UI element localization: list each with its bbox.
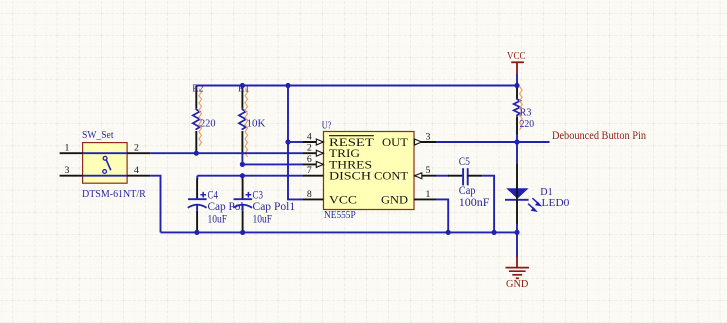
resistor R1 bottom pin — [241, 131, 243, 154]
svg-text:VCC: VCC — [329, 194, 357, 206]
LED emission arrow 2 — [528, 204, 536, 212]
RESET overline — [329, 135, 374, 137]
svg-text:Cap Pol: Cap Pol — [208, 201, 244, 213]
capacitor C3 plus sign — [246, 192, 252, 198]
capacitor C4 plus sign — [200, 192, 206, 198]
capacitor C4 bottom pin — [196, 211, 198, 233]
svg-text:SW_Set: SW_Set — [82, 130, 114, 141]
svg-text:4: 4 — [307, 131, 312, 142]
pin 2 stub (TRIG) — [303, 152, 324, 154]
svg-text:5: 5 — [426, 165, 431, 176]
pin 2 stub (switch) — [127, 152, 150, 154]
diode D1 cathode bar — [505, 199, 529, 201]
wire: DISCH row from C4 corner to IC — [197, 175, 303, 177]
wire: RESET from junction to stub — [288, 141, 303, 143]
diode D1 bottom pin — [516, 200, 518, 224]
capacitor C4 bottom stub — [196, 205, 198, 211]
wire: THRES row — [242, 163, 303, 165]
svg-text:CONT: CONT — [374, 171, 408, 183]
svg-text:VCC: VCC — [507, 51, 526, 62]
resistor R3 zigzag — [514, 99, 521, 116]
ground symbol stub — [516, 257, 518, 268]
svg-text:DTSM-61NT/R: DTSM-61NT/R — [82, 189, 146, 200]
wire: OUT to net label — [436, 141, 550, 143]
ground bar 1 — [506, 267, 530, 269]
svg-text:OUT: OUT — [382, 137, 408, 149]
pin 6 stub (THRES) — [303, 163, 324, 165]
svg-text:100nF: 100nF — [459, 197, 490, 209]
pin 3 stub (switch) — [60, 175, 83, 177]
capacitor C3 bottom stub — [242, 205, 244, 211]
ground bar 3 — [512, 274, 522, 276]
junction x288/top rail — [285, 83, 290, 88]
pin 4 stub (switch) — [127, 175, 150, 177]
resistor R2 zigzag — [193, 109, 200, 130]
ground bar 2 — [509, 270, 526, 272]
resistor R3 bottom pin — [516, 116, 518, 135]
wire: OUT junction down to LED — [516, 142, 518, 164]
wire: C4 corner down — [196, 176, 198, 180]
svg-text:Cap Pol1: Cap Pol1 — [253, 201, 296, 213]
junction rail/IC-GND — [446, 230, 451, 235]
switch contact circle upper — [103, 156, 107, 160]
wire: C3 column from DISCH junction down — [241, 176, 243, 180]
svg-text:3: 3 — [65, 165, 70, 176]
pin 1 stub (switch) — [60, 152, 83, 154]
pin 5 input arrow — [415, 173, 422, 179]
resistor R3 top pin — [516, 86, 518, 99]
svg-text:NE555P: NE555P — [324, 210, 356, 221]
svg-text:U?: U? — [322, 121, 332, 132]
junction DISCH/C3 — [240, 173, 245, 178]
wire: vertical R2 column top pin (black) — [195, 86, 197, 109]
capacitor C3 top pin — [242, 179, 244, 200]
diode D1 LED triangle — [506, 188, 528, 199]
junction rail/C4 — [194, 230, 199, 235]
svg-text:D1: D1 — [540, 187, 552, 198]
capacitor C3 curved plate — [233, 205, 252, 208]
VCC stub — [516, 62, 518, 74]
svg-text:10uF: 10uF — [253, 213, 273, 225]
capacitor C5 right pin — [468, 175, 483, 177]
diode D1 top pin — [516, 164, 518, 199]
pin 4 input arrow — [316, 139, 323, 145]
wire: switch pin4 to bottom rail corner — [150, 176, 160, 233]
svg-text:GND: GND — [506, 279, 529, 290]
capacitor C3 bottom pin — [242, 211, 244, 233]
switch actuator bar — [106, 160, 110, 170]
switch internal line row1 — [83, 152, 128, 154]
svg-text:220: 220 — [520, 119, 535, 130]
svg-text:R3: R3 — [520, 108, 532, 119]
junction VCC/top rail — [514, 83, 519, 88]
svg-text:GND: GND — [381, 194, 408, 206]
svg-text:C4: C4 — [208, 189, 219, 201]
junction rail/C5 — [492, 230, 497, 235]
pin 8 stub (VCC) — [303, 198, 324, 200]
capacitor C3 top plate — [234, 198, 253, 200]
svg-text:TRIG: TRIG — [329, 148, 360, 160]
pin 2 input arrow — [316, 150, 323, 156]
wire: LED to rail — [516, 224, 518, 232]
svg-text:8: 8 — [307, 189, 312, 200]
resistor R1 top pin — [241, 86, 243, 109]
svg-text:220: 220 — [200, 119, 216, 130]
LED emission arrow 1 — [532, 198, 540, 206]
pin 6 input arrow — [316, 161, 323, 167]
svg-text:10K: 10K — [247, 119, 267, 130]
svg-text:1: 1 — [65, 143, 70, 154]
resistor R2 bottom pin — [195, 131, 197, 153]
svg-text:C3: C3 — [253, 189, 264, 201]
svg-text:7: 7 — [307, 165, 312, 176]
junction rail/C3 — [240, 230, 245, 235]
capacitor C4 top plate — [188, 198, 207, 200]
svg-text:LED0: LED0 — [542, 198, 570, 209]
pin 3 stub (OUT) — [414, 141, 436, 143]
wire: CONT to C5 — [436, 175, 449, 177]
junction rail/GND-drop — [514, 230, 519, 235]
svg-text:3: 3 — [426, 131, 431, 142]
VCC bar — [511, 61, 524, 63]
svg-text:Cap: Cap — [459, 185, 476, 197]
svg-text:6: 6 — [307, 154, 312, 165]
junction R2/TRIG — [194, 151, 199, 156]
pin 7 stub (DISCH) — [303, 175, 324, 177]
pin 3 output arrow — [415, 139, 422, 145]
ERC squiggle R3 — [520, 87, 523, 130]
svg-text:Debounced Button Pin: Debounced Button Pin — [552, 130, 646, 142]
pin 1 stub (GND) — [414, 198, 436, 200]
pin 5 stub (CONT) — [414, 175, 436, 177]
resistor R1 zigzag — [239, 109, 246, 130]
wire: TRIG row from switch pin2 to IC — [150, 152, 303, 154]
op IC U? body NE555P — [324, 132, 415, 210]
junction R1/top rail — [240, 83, 245, 88]
ground bar 4 — [516, 277, 519, 279]
svg-text:THRES: THRES — [329, 159, 372, 171]
capacitor C5 right plate — [467, 168, 469, 185]
wire: top VCC rail from R2 to VCC column — [196, 85, 517, 87]
wire: GND pin1 to corner and down — [436, 199, 448, 232]
wire: bottom GND rail — [161, 231, 518, 233]
svg-text:2: 2 — [307, 143, 312, 154]
junction OUT/R3/LED — [514, 139, 519, 144]
svg-text:1: 1 — [426, 189, 431, 200]
svg-text:C5: C5 — [459, 156, 470, 168]
switch contact circle lower — [103, 170, 107, 174]
junction THRES/R1 — [240, 162, 245, 167]
wire: rail to GND symbol — [516, 232, 518, 257]
ERC squiggle R1 — [245, 89, 248, 157]
wire: C5 to corner and down to rail — [482, 176, 494, 233]
svg-text:RESET: RESET — [329, 137, 374, 149]
capacitor C5 left pin — [448, 175, 463, 177]
svg-text:R2: R2 — [192, 84, 203, 95]
switch internal line row2 — [83, 175, 128, 177]
capacitor C4 top pin — [196, 179, 198, 200]
wire: vertical x288 from top rail to pin8 row — [288, 86, 303, 200]
svg-text:4: 4 — [134, 165, 139, 176]
switch SW_Set body — [83, 143, 128, 184]
capacitor C5 left plate — [462, 168, 464, 185]
pin 4 stub (RESET) — [303, 141, 324, 143]
ERC squiggle R2 — [199, 89, 202, 147]
svg-text:10uF: 10uF — [208, 213, 228, 225]
capacitor C4 curved plate — [188, 205, 207, 208]
wire: VCC stub to rail — [516, 74, 518, 86]
svg-text:2: 2 — [134, 143, 139, 154]
svg-text:DISCH: DISCH — [329, 171, 371, 183]
junction RESET — [285, 139, 290, 144]
